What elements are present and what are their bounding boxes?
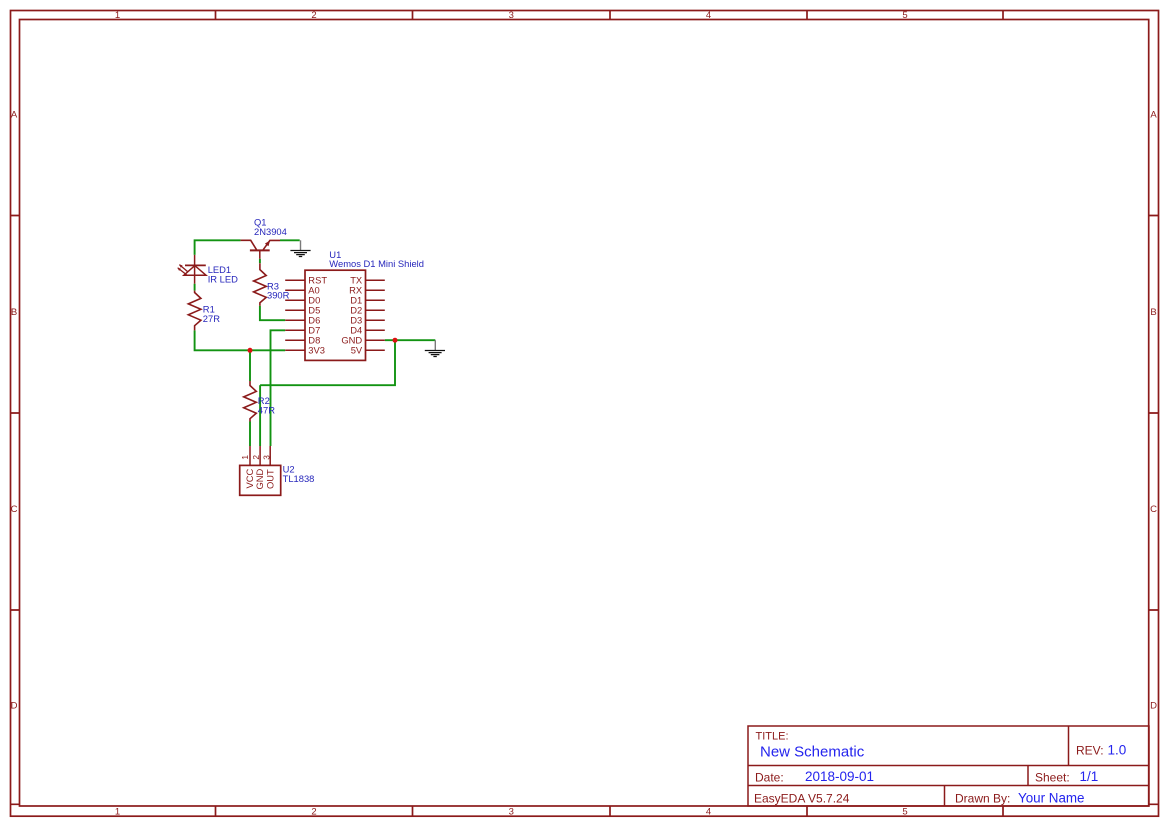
svg-text:New Schematic: New Schematic [760, 743, 865, 760]
svg-text:C: C [11, 504, 18, 515]
svg-text:2N3904: 2N3904 [254, 226, 287, 237]
svg-text:1: 1 [115, 806, 120, 817]
svg-text:5: 5 [902, 10, 907, 21]
svg-text:EasyEDA V5.7.24: EasyEDA V5.7.24 [754, 791, 850, 805]
svg-text:2: 2 [311, 10, 316, 21]
svg-text:1: 1 [115, 10, 120, 21]
svg-text:2: 2 [311, 806, 316, 817]
svg-text:3: 3 [261, 455, 271, 460]
svg-text:Drawn By:: Drawn By: [955, 791, 1010, 805]
svg-text:5: 5 [902, 806, 907, 817]
svg-text:5V: 5V [351, 345, 363, 356]
svg-text:3: 3 [509, 806, 514, 817]
svg-text:1/1: 1/1 [1080, 769, 1099, 784]
svg-text:Date:: Date: [755, 770, 784, 784]
svg-text:OUT: OUT [264, 469, 275, 489]
svg-text:D: D [11, 701, 18, 712]
svg-text:Your Name: Your Name [1018, 790, 1085, 805]
svg-text:390R: 390R [267, 290, 290, 301]
svg-text:4: 4 [706, 10, 711, 21]
svg-text:3: 3 [509, 10, 514, 21]
svg-text:1: 1 [240, 455, 250, 460]
svg-text:2: 2 [251, 455, 261, 460]
svg-text:A: A [1150, 110, 1157, 121]
svg-text:Sheet:: Sheet: [1035, 770, 1070, 784]
svg-text:2018-09-01: 2018-09-01 [805, 769, 874, 784]
svg-text:B: B [1150, 307, 1156, 318]
svg-text:3V3: 3V3 [308, 345, 325, 356]
svg-text:47R: 47R [258, 405, 275, 416]
svg-text:TL1838: TL1838 [283, 473, 315, 484]
svg-text:C: C [1150, 504, 1157, 515]
svg-text:IR LED: IR LED [208, 274, 238, 285]
svg-text:B: B [11, 307, 17, 318]
svg-text:27R: 27R [203, 313, 220, 324]
svg-text:Wemos D1 Mini Shield: Wemos D1 Mini Shield [329, 258, 424, 269]
svg-text:D: D [1150, 701, 1157, 712]
svg-text:1.0: 1.0 [1108, 742, 1127, 757]
svg-text:REV:: REV: [1076, 743, 1104, 757]
svg-text:TITLE:: TITLE: [756, 731, 789, 743]
svg-text:A: A [11, 110, 18, 121]
svg-text:4: 4 [706, 806, 711, 817]
